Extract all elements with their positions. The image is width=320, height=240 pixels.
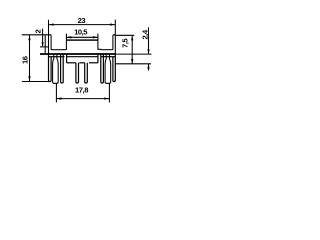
dimension 10,5 arrow right (93, 36, 98, 38)
solder pin 1 (bell shape) (53, 55, 59, 84)
dimension 16 extension bottom (22, 81, 50, 83)
central plateau (66, 40, 100, 50)
plateau top thick edge (66, 39, 98, 41)
svg-text:7,5: 7,5 (121, 38, 130, 48)
solder pin 2 (bell shape) (105, 55, 111, 84)
dimension 23 extension line left (48, 20, 50, 35)
dimension 2,4 line (148, 27, 150, 54)
dimension 16 line (29, 35, 31, 81)
dimension 2 line (top left) (42, 29, 44, 46)
outer right fin (113, 54, 115, 82)
dimension 16 arrow up (28, 35, 30, 40)
central block sides (66, 55, 68, 63)
dimension 7,5 arrow up (131, 36, 133, 41)
dimension 23 arrow right (110, 23, 115, 25)
dimension 7,5 extension top (116, 34, 135, 36)
dimension 10,5 line (66, 36, 98, 38)
fin E (85, 63, 88, 83)
dimension 17,8 extension left (55, 83, 57, 102)
svg-text:2: 2 (34, 29, 43, 33)
dimension 23 arrow left (49, 23, 54, 25)
dimension 23 line (49, 24, 116, 26)
extension line for 2 (40, 46, 49, 48)
dimension 2,4 extension line lower (115, 63, 151, 65)
channel floor left (51, 49, 66, 51)
dimension 17,8 extension right (108, 83, 110, 102)
outer left fin (49, 54, 52, 82)
svg-text:2,4: 2,4 (141, 29, 150, 39)
dimension 10,5 extension left (65, 34, 67, 41)
dimension 17,8 arrow left (57, 97, 62, 99)
svg-text:16: 16 (21, 56, 30, 64)
boss line under plate (49, 56, 65, 58)
fin B (101, 55, 104, 83)
dimension 2,4 extension line upper (115, 53, 151, 55)
short vertical reference line (44, 35, 46, 53)
central block bottom segments (slot ceilings) (67, 62, 76, 64)
dimension 16 arrow down (28, 76, 30, 81)
svg-text:17,8: 17,8 (75, 85, 88, 94)
dimension 23 extension line right (114, 20, 116, 35)
dimension 10,5 arrow left (67, 36, 72, 38)
heatsink right wall with rounded top (113, 35, 115, 54)
dimension 10,5 extension right (97, 34, 99, 41)
dimension 2,4 up arrow (147, 64, 149, 69)
channel floor right (101, 49, 113, 51)
heatsink left wall with rounded top (49, 35, 52, 54)
base plate bottom thick line (40, 53, 115, 55)
fin D (76, 63, 79, 83)
dimension 7,5 line (131, 36, 133, 64)
fin A (61, 55, 64, 83)
dimension 17,8 arrow right (104, 97, 109, 99)
svg-text:23: 23 (78, 16, 86, 25)
dimension 16 extension top (22, 34, 49, 36)
dimension 2,4 down arrow (147, 49, 149, 54)
svg-text:10,5: 10,5 (74, 27, 88, 36)
dimension 7,5 arrow down (131, 59, 133, 64)
dimension 2 down arrow (42, 42, 44, 47)
dimension 17,8 line (56, 98, 109, 100)
